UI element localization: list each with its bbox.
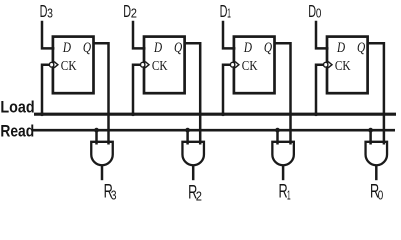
CK inversion bubble: [141, 62, 145, 67]
wire Read line to AND gate: [95, 130, 98, 144]
svg-text:Q: Q: [83, 40, 92, 56]
svg-text:CK: CK: [335, 58, 351, 73]
junction CK wire on Load line: [131, 112, 135, 116]
junction CK wire on Load line: [221, 112, 225, 116]
svg-text:1: 1: [287, 188, 291, 203]
wire gate G3 output: [101, 165, 104, 180]
wire D0 input to flip-flop D pin: [316, 21, 329, 49]
AND gate G3: [91, 142, 113, 165]
CK edge-trigger triangle: [145, 62, 149, 68]
svg-text:D: D: [62, 40, 71, 56]
CK edge-trigger triangle: [235, 62, 239, 68]
svg-text:CK: CK: [242, 58, 258, 73]
svg-text:Q: Q: [174, 40, 183, 56]
AND gate G0: [366, 142, 388, 165]
output label R3: [104, 182, 117, 203]
wire Read line to AND gate: [186, 130, 189, 144]
wire Load to CK pin: [42, 65, 50, 115]
junction dot Read to gate: [94, 128, 99, 133]
svg-text:3: 3: [47, 6, 53, 21]
output label R2: [188, 182, 202, 203]
output label R1: [279, 182, 291, 203]
input label D1: [220, 1, 231, 21]
wire gate G1 output: [282, 165, 285, 180]
input label D3: [40, 1, 53, 21]
svg-text:1: 1: [227, 6, 231, 21]
svg-text:0: 0: [316, 6, 322, 21]
svg-text:Read: Read: [0, 123, 34, 141]
svg-text:Load: Load: [0, 98, 34, 116]
flip-flop U1 box: [234, 37, 275, 94]
junction CK wire on Load line: [40, 112, 44, 116]
wire Load to CK pin: [223, 65, 231, 115]
AND gate G1: [272, 142, 294, 165]
CK edge-trigger triangle: [54, 62, 58, 68]
wire Load to CK pin: [133, 65, 141, 115]
svg-text:2: 2: [131, 6, 137, 21]
input label D0: [308, 1, 321, 21]
svg-text:D: D: [153, 40, 162, 56]
svg-text:Q: Q: [357, 40, 366, 56]
junction dot Read to gate: [368, 128, 373, 133]
wire gate G2 output: [192, 165, 195, 180]
output label R0: [370, 181, 383, 202]
wire D3 input to flip-flop D pin: [42, 21, 54, 49]
CK inversion bubble: [49, 62, 53, 67]
wire Q output to AND gate: [368, 43, 384, 144]
svg-text:CK: CK: [152, 58, 168, 73]
junction CK wire on Load line: [314, 112, 318, 116]
svg-text:0: 0: [378, 187, 384, 202]
CK inversion bubble: [324, 62, 328, 67]
input label D2: [123, 1, 137, 21]
Read bus wire: [33, 129, 395, 132]
svg-text:D: D: [336, 40, 345, 56]
svg-text:2: 2: [196, 188, 202, 203]
wire D1 input to flip-flop D pin: [223, 21, 235, 49]
wire Q output to AND gate: [275, 43, 291, 144]
flip-flop U0 box: [327, 37, 368, 94]
wire Read line to AND gate: [276, 130, 279, 144]
wire Q output to AND gate: [185, 43, 201, 144]
junction dot Read to gate: [185, 128, 190, 133]
svg-text:Q: Q: [264, 40, 273, 56]
flip-flop U2 box: [144, 37, 185, 94]
flip-flop U3 box: [53, 37, 94, 94]
wire D2 input to flip-flop D pin: [133, 21, 146, 49]
junction dot Read to gate: [275, 128, 280, 133]
wire gate G0 output: [375, 165, 378, 180]
Load bus wire: [34, 113, 396, 116]
AND gate G2: [182, 142, 204, 165]
svg-text:3: 3: [111, 188, 117, 203]
wire Read line to AND gate: [369, 130, 372, 144]
svg-text:D: D: [243, 40, 252, 56]
wire Q output to AND gate: [94, 43, 109, 144]
wire Load to CK pin: [316, 65, 324, 115]
svg-text:CK: CK: [61, 58, 77, 73]
CK edge-trigger triangle: [328, 62, 332, 68]
CK inversion bubble: [230, 62, 234, 67]
